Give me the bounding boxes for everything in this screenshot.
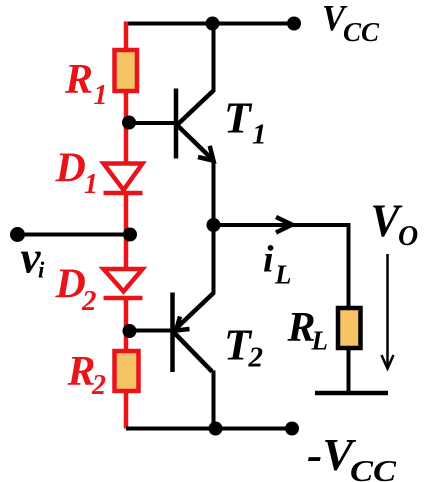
node: output junction (207, 218, 221, 232)
transistor T1 (NPN) (176, 89, 214, 161)
svg-text:L: L (311, 325, 329, 355)
label D2 (55, 262, 97, 318)
svg-text:-V: -V (307, 429, 356, 480)
node: input junction on red rail (123, 228, 137, 242)
wire: red segment R1 to D1 (124, 91, 129, 164)
label R1 (64, 57, 108, 111)
diode D2 (104, 269, 143, 298)
node: Vcc terminal dot (287, 17, 301, 31)
wire: input wire from vi (18, 233, 131, 237)
svg-text:i: i (38, 258, 45, 283)
node: -Vcc terminal dot (285, 422, 299, 436)
wire: red rail top segment into R1 (124, 22, 129, 51)
wire: down to RL (347, 223, 351, 308)
svg-text:2: 2 (81, 285, 97, 317)
label RL (287, 305, 329, 356)
svg-text:CC: CC (343, 17, 380, 47)
label R2 (67, 349, 107, 401)
svg-text:1: 1 (94, 80, 108, 111)
svg-text:D: D (55, 146, 86, 192)
svg-text:T: T (224, 93, 253, 142)
resistor R1 (115, 50, 138, 91)
svg-text:R: R (64, 57, 93, 103)
diode D1 (104, 164, 143, 194)
node: input terminal dot (10, 227, 25, 242)
label D1 (55, 146, 99, 201)
node: base junction of T2 on red rail (123, 324, 137, 338)
svg-text:O: O (398, 221, 418, 252)
wire: T2 base wire (130, 329, 173, 333)
svg-text:1: 1 (252, 119, 267, 151)
wire: top Vcc rail (126, 22, 294, 26)
wire: red segment D1 to input node (124, 193, 129, 269)
label T2 (224, 320, 263, 373)
wire: output node down to T2 emitter (212, 225, 216, 294)
transistor T2 (PNP) (173, 293, 215, 373)
svg-text:1: 1 (84, 169, 98, 200)
node: bottom rail junction (209, 422, 223, 436)
resistor RL (338, 308, 361, 348)
label T1 (224, 93, 267, 150)
svg-text:CC: CC (350, 453, 396, 482)
arrow: load current iL (276, 217, 292, 233)
svg-text:L: L (274, 259, 292, 289)
label Vcc (322, 0, 380, 47)
wire: T1 emitter to output node (212, 160, 216, 225)
wire: bottom -Vcc rail (126, 427, 292, 431)
label iL (263, 239, 292, 290)
wire: T1 base wire (129, 121, 176, 125)
svg-text:2: 2 (91, 370, 106, 401)
wire: T2 collector to bottom rail (212, 371, 216, 429)
wire: red segment R2 to bottom rail (124, 391, 129, 429)
wire: T1 collector to top rail (212, 24, 216, 93)
node: top rail junction (206, 17, 220, 31)
label vi (21, 233, 46, 283)
svg-text:2: 2 (248, 341, 264, 373)
svg-text:i: i (263, 239, 274, 281)
label Vo (371, 195, 419, 252)
label -Vcc (307, 429, 396, 482)
wire: RL to ground (347, 348, 351, 391)
wire: red segment D2 to R2 (124, 298, 129, 351)
resistor R2 (115, 351, 139, 391)
ground (315, 391, 388, 396)
arrow: Vo direction (382, 254, 394, 369)
node: base junction of T1 on red rail (122, 116, 136, 130)
wire: output wire to load (214, 223, 349, 227)
